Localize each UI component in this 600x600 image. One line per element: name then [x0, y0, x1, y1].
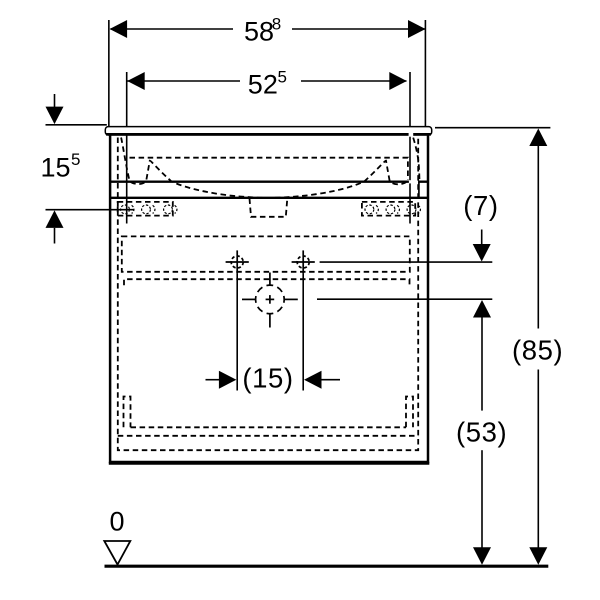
- svg-text:(85): (85): [512, 334, 563, 365]
- svg-text:(7): (7): [463, 190, 498, 221]
- svg-text:(15): (15): [242, 362, 293, 393]
- svg-text:52: 52: [248, 70, 278, 100]
- svg-text:8: 8: [272, 15, 281, 34]
- svg-text:5: 5: [278, 68, 287, 87]
- svg-text:58: 58: [244, 16, 274, 46]
- svg-text:5: 5: [71, 150, 80, 169]
- svg-text:0: 0: [110, 506, 125, 536]
- svg-text:(53): (53): [456, 417, 507, 448]
- svg-text:15: 15: [41, 152, 71, 182]
